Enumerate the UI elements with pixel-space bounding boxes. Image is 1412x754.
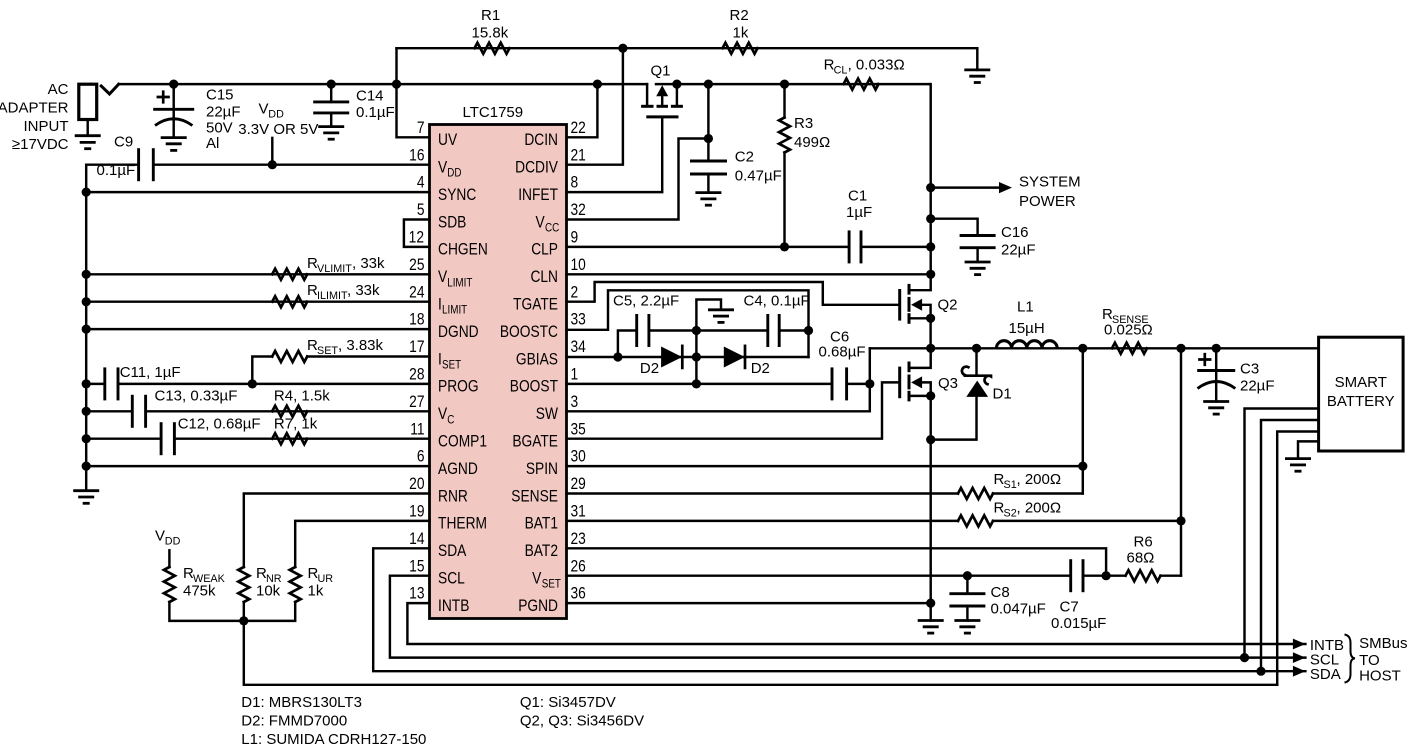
svg-text:2: 2	[570, 283, 578, 302]
ground (top right)	[964, 70, 990, 83]
wire pin28 PROG	[86, 383, 105, 385]
node L1 output	[1078, 344, 1087, 353]
SMBus arrow INTB	[1293, 639, 1306, 650]
svg-text:, 0.033Ω: , 0.033Ω	[848, 56, 905, 73]
svg-text:0.047µF: 0.047µF	[991, 600, 1046, 617]
svg-text:DD: DD	[447, 167, 461, 180]
svg-text:23: 23	[570, 530, 585, 549]
resistor R3	[780, 80, 789, 89]
svg-text:BOOST: BOOST	[510, 377, 559, 396]
svg-text:GBIAS: GBIAS	[516, 350, 558, 369]
svg-text:INPUT: INPUT	[24, 118, 69, 135]
svg-text:1µF: 1µF	[846, 204, 872, 221]
resistor RCL	[844, 79, 879, 90]
svg-text:13: 13	[409, 584, 424, 603]
svg-text:LIMIT: LIMIT	[447, 276, 472, 289]
node thermistor junction	[239, 616, 248, 625]
svg-text:UV: UV	[438, 131, 458, 150]
resistor RS1	[958, 488, 993, 499]
wire pin24 ILIMIT	[86, 300, 429, 302]
svg-text:30: 30	[570, 447, 585, 466]
inductor L1	[996, 341, 1057, 349]
svg-text:PGND: PGND	[518, 597, 558, 616]
svg-text:SYSTEM: SYSTEM	[1019, 174, 1081, 191]
capacitor C2	[704, 80, 713, 89]
wire pin7 UV from top rail	[397, 48, 430, 137]
svg-text:SET: SET	[317, 345, 338, 357]
svg-text:1k: 1k	[733, 24, 749, 41]
resistor R6	[1126, 570, 1161, 581]
svg-text:28: 28	[409, 365, 424, 384]
svg-text:DCDIV: DCDIV	[515, 158, 559, 177]
resistor R1	[475, 43, 510, 54]
svg-text:R3: R3	[794, 115, 813, 132]
svg-text:11: 11	[410, 420, 424, 439]
wire right rail down from RCL	[929, 84, 932, 274]
svg-text:12: 12	[409, 228, 424, 247]
wire pin4 SYNC	[86, 191, 429, 193]
wire thermistor line to battery	[244, 621, 1277, 685]
svg-text:BAT2: BAT2	[525, 542, 558, 561]
AC adapter jack	[79, 84, 97, 119]
svg-text:36: 36	[570, 584, 585, 603]
svg-text:15.8k: 15.8k	[472, 24, 509, 41]
svg-text:DD: DD	[165, 536, 181, 548]
svg-text:5: 5	[417, 201, 425, 220]
op-amp U1 LTC1759 IC body	[430, 125, 567, 619]
svg-text:R6: R6	[1134, 533, 1153, 550]
wire pin8 INFET to Q1 gate	[567, 117, 663, 192]
wire main input rail y=84.1	[119, 83, 648, 85]
svg-text:LTC1759: LTC1759	[463, 104, 524, 121]
svg-text:35: 35	[570, 420, 585, 439]
svg-text:, 33k: , 33k	[352, 255, 385, 272]
wire pin35 BGATE to Q3 gate	[567, 382, 899, 438]
svg-text:C12, 0.68µF: C12, 0.68µF	[178, 416, 261, 433]
svg-text:D1: D1	[993, 386, 1012, 403]
svg-text:BOOSTC: BOOSTC	[500, 323, 558, 342]
svg-text:C8: C8	[991, 584, 1010, 601]
svg-text:C14: C14	[356, 88, 384, 105]
svg-text:C2: C2	[735, 149, 754, 166]
wire BAT1/R6 vertical	[1180, 348, 1182, 575]
svg-text:10k: 10k	[256, 583, 281, 600]
capacitor C15	[169, 80, 178, 89]
svg-text:S1: S1	[1004, 479, 1017, 491]
SMBus arrow SDA	[1293, 666, 1306, 677]
wire pin33 BOOSTC loop	[567, 290, 809, 357]
svg-text:, 3.83k: , 3.83k	[338, 337, 384, 354]
svg-text:0.68µF: 0.68µF	[819, 344, 866, 361]
resistor RWEAK	[168, 550, 170, 567]
svg-text:9: 9	[570, 228, 578, 247]
wire pin22 DCIN	[567, 84, 598, 137]
svg-text:DCIN: DCIN	[524, 131, 558, 150]
ground (left bus)	[73, 491, 99, 504]
svg-text:LIMIT: LIMIT	[442, 304, 467, 317]
svg-text:D2: D2	[640, 360, 659, 377]
resistor RILIMIT	[272, 296, 307, 307]
resistor RSENSE	[1112, 343, 1147, 354]
svg-text:C7: C7	[1060, 599, 1079, 616]
svg-text:7: 7	[417, 119, 425, 138]
svg-text:BATTERY: BATTERY	[1327, 393, 1395, 410]
wire pin9 CLP	[567, 246, 850, 248]
wire pin23 BAT2	[567, 548, 1107, 575]
svg-text:SET: SET	[542, 578, 561, 591]
wire R2 right drop to ground	[976, 48, 978, 70]
wire pin27 VC	[86, 410, 132, 412]
svg-text:AGND: AGND	[438, 460, 478, 479]
svg-text:, 200Ω: , 200Ω	[1017, 471, 1062, 488]
svg-text:D2: D2	[751, 360, 770, 377]
svg-text:475k: 475k	[183, 583, 216, 600]
svg-text:SENSE: SENSE	[511, 487, 558, 506]
svg-text:0.025Ω: 0.025Ω	[1104, 322, 1153, 339]
node R1-R2 junction	[618, 44, 627, 53]
capacitor C8	[963, 571, 972, 580]
svg-text:499Ω: 499Ω	[794, 134, 830, 151]
capacitor C3	[1212, 344, 1221, 353]
smart battery box	[1319, 337, 1404, 451]
svg-text:22µF: 22µF	[1001, 242, 1036, 259]
svg-text:3.3V OR 5V: 3.3V OR 5V	[238, 121, 318, 138]
capacitor C12	[160, 422, 163, 455]
wire pin3 SW up to switch node	[567, 348, 870, 411]
svg-text:29: 29	[570, 475, 585, 494]
svg-text:32: 32	[570, 201, 585, 220]
ground (charge pump)	[708, 310, 734, 323]
svg-text:16: 16	[409, 146, 424, 165]
svg-text:D2: FMMD7000: D2: FMMD7000	[241, 713, 347, 730]
svg-text:CHGEN: CHGEN	[438, 240, 488, 259]
wire VDD stub	[271, 138, 273, 165]
svg-text:C4, 0.1µF: C4, 0.1µF	[744, 293, 810, 310]
wire pin11 COMP1	[86, 437, 161, 439]
svg-text:10: 10	[570, 256, 585, 275]
svg-text:8: 8	[570, 173, 578, 192]
svg-text:1k: 1k	[308, 583, 324, 600]
svg-text:SPIN: SPIN	[526, 460, 558, 479]
wire top R1/R2 rail y=48	[397, 47, 978, 49]
svg-text:1: 1	[570, 365, 578, 384]
svg-text:0.015µF: 0.015µF	[1051, 615, 1106, 632]
svg-text:Q3: Q3	[938, 375, 958, 392]
wire pin31 BAT1 with RS2	[567, 520, 959, 522]
wire pin36 PGND	[567, 602, 931, 604]
svg-text:6: 6	[417, 447, 425, 466]
wire battery ground	[1298, 441, 1319, 458]
wire pin5 SDB / pin12 CHGEN loop	[404, 220, 430, 247]
svg-text:RNR: RNR	[438, 487, 468, 506]
svg-text:, 200Ω: , 200Ω	[1017, 499, 1062, 516]
svg-text:C5, 2.2µF: C5, 2.2µF	[613, 293, 679, 310]
wire pin20 RNR down to RNR resistor	[244, 494, 430, 568]
svg-text:31: 31	[570, 502, 585, 521]
svg-text:SDA: SDA	[1310, 666, 1341, 683]
svg-text:BGATE: BGATE	[512, 432, 558, 451]
svg-text:Q1: Q1	[651, 63, 671, 80]
svg-text:26: 26	[570, 557, 585, 576]
svg-text:50V: 50V	[206, 119, 233, 136]
wire rail right of Q1	[656, 83, 930, 85]
svg-text:V: V	[535, 213, 545, 232]
svg-text:34: 34	[570, 338, 586, 357]
svg-text:V: V	[155, 528, 165, 545]
wire SENSE/SPIN vertical	[1082, 348, 1084, 493]
svg-text:Al: Al	[206, 135, 219, 152]
capacitor C14	[327, 80, 336, 89]
wire pin18 DGND	[86, 328, 429, 330]
svg-text:0.47µF: 0.47µF	[735, 168, 782, 185]
svg-text:AC: AC	[48, 81, 69, 98]
wire SYSTEM POWER arrow	[931, 186, 1000, 188]
svg-text:CL: CL	[834, 64, 848, 76]
diode D2 first	[661, 347, 682, 368]
svg-text:C3: C3	[1240, 361, 1259, 378]
wire pin2 TGATE to Q2 gate	[567, 282, 899, 305]
wire pin30 SPIN	[567, 465, 1083, 467]
resistor RVLIMIT	[272, 269, 307, 280]
wire battery SMBus pin B	[1261, 420, 1319, 671]
svg-text:CLP: CLP	[531, 240, 558, 259]
brace SMBus group	[1345, 635, 1356, 683]
wire pin34 GBIAS diode row	[567, 356, 809, 358]
svg-text:Q2: Q2	[938, 297, 958, 314]
svg-text:14: 14	[409, 530, 425, 549]
wire Q3 source to D1 and PGND	[926, 435, 935, 444]
svg-text:COMP1: COMP1	[438, 432, 487, 451]
diode D1 schottky	[966, 381, 988, 397]
ground (battery)	[1285, 459, 1311, 472]
svg-text:C13, 0.33µF: C13, 0.33µF	[155, 387, 238, 404]
svg-text:R4, 1.5k: R4, 1.5k	[274, 387, 330, 404]
SMBus arrow SCL	[1293, 652, 1306, 663]
svg-text:22µF: 22µF	[1240, 378, 1275, 395]
svg-text:18: 18	[409, 310, 424, 329]
svg-text:19: 19	[409, 502, 424, 521]
svg-text:L1: L1	[1017, 299, 1034, 316]
svg-text:CC: CC	[545, 222, 559, 235]
svg-text:SCL: SCL	[438, 569, 465, 588]
capacitor C5	[635, 314, 638, 347]
svg-text:20: 20	[409, 475, 424, 494]
svg-text:R2: R2	[730, 7, 749, 24]
ground (PGND)	[918, 621, 944, 634]
wire pin10 CLN	[567, 273, 931, 275]
resistor RSET	[272, 351, 307, 362]
capacitor C1	[848, 230, 851, 263]
node system power	[926, 183, 935, 192]
svg-text:DD: DD	[268, 109, 284, 121]
svg-text:R7, 1k: R7, 1k	[274, 416, 318, 433]
wire jack to ground	[86, 120, 88, 136]
svg-text:25: 25	[409, 256, 424, 275]
svg-text:27: 27	[409, 393, 424, 412]
resistor R7	[272, 433, 307, 444]
svg-text:4: 4	[417, 173, 425, 192]
wire battery thermistor pin C	[1277, 432, 1318, 685]
svg-text:21: 21	[570, 146, 585, 165]
wire pin14 SDA routing	[373, 548, 1305, 671]
svg-text:24: 24	[409, 283, 425, 302]
wire charge pump mid node to ground	[696, 300, 721, 384]
node RSENSE right	[1176, 344, 1185, 353]
wire pin15 SCL routing	[390, 576, 1306, 658]
svg-text:ILIMIT: ILIMIT	[317, 290, 348, 302]
svg-text:ADAPTER: ADAPTER	[0, 99, 69, 116]
svg-text:C15: C15	[206, 87, 234, 104]
svg-text:22µF: 22µF	[206, 104, 241, 121]
svg-text:VLIMIT: VLIMIT	[317, 263, 352, 275]
svg-text:L1: SUMIDA CDRH127-150: L1: SUMIDA CDRH127-150	[241, 731, 426, 748]
capacitor C4	[766, 314, 769, 347]
svg-text:Q1: Si3457DV: Q1: Si3457DV	[520, 694, 616, 711]
wire battery SMBus pin A	[1245, 409, 1319, 658]
svg-text:SMBus: SMBus	[1359, 635, 1407, 652]
svg-text:C: C	[447, 413, 454, 426]
wire left bus vertical	[85, 165, 87, 491]
resistor RNR	[238, 567, 249, 602]
svg-text:SET: SET	[442, 359, 461, 372]
svg-text:BAT1: BAT1	[525, 514, 558, 533]
ground (AC input)	[75, 136, 101, 149]
wire pin21 DCDIV	[567, 48, 623, 165]
wire pin26 VSET	[567, 574, 1071, 576]
capacitor C16	[926, 214, 935, 223]
svg-text:C16: C16	[1001, 224, 1029, 241]
svg-text:SMART: SMART	[1335, 374, 1387, 391]
svg-text:POWER: POWER	[1019, 193, 1076, 210]
svg-text:V: V	[259, 101, 269, 118]
capacitor C13	[131, 395, 134, 428]
diode D2 second	[724, 347, 745, 368]
svg-text:PROG: PROG	[438, 377, 479, 396]
wire pin6 AGND	[86, 465, 429, 467]
resistor RUR	[290, 567, 301, 602]
wire pin29 SENSE with RS1	[567, 492, 959, 494]
svg-text:SW: SW	[536, 405, 559, 424]
svg-text:, 33k: , 33k	[347, 282, 380, 299]
wire switch node line	[870, 347, 1319, 349]
wire pin32 VCC	[567, 139, 709, 220]
capacitor C6	[831, 367, 834, 400]
svg-text:15µH: 15µH	[1009, 320, 1045, 337]
svg-text:17: 17	[409, 338, 424, 357]
wire VDD pin16 line	[153, 163, 429, 165]
svg-text:68Ω: 68Ω	[1127, 550, 1155, 567]
svg-text:≥17VDC: ≥17VDC	[12, 136, 69, 153]
wire C5/C4 row	[618, 331, 637, 358]
svg-text:HOST: HOST	[1359, 668, 1401, 685]
svg-text:SDA: SDA	[438, 542, 467, 561]
svg-text:DGND: DGND	[438, 323, 479, 342]
svg-text:C9: C9	[114, 134, 133, 151]
svg-text:C1: C1	[848, 188, 867, 205]
wire pin17 ISET with RSET drop	[252, 357, 272, 384]
resistor R4	[272, 406, 307, 417]
svg-text:INFET: INFET	[518, 186, 558, 205]
svg-text:R1: R1	[481, 7, 500, 24]
svg-text:SDB: SDB	[438, 213, 466, 232]
svg-text:TGATE: TGATE	[513, 295, 558, 314]
svg-text:V: V	[532, 569, 542, 588]
svg-text:C11, 1µF: C11, 1µF	[120, 364, 181, 381]
svg-text:SYNC: SYNC	[438, 186, 476, 205]
resistor R2	[723, 43, 758, 54]
svg-text:CLN: CLN	[530, 268, 558, 287]
svg-text:TO: TO	[1359, 652, 1380, 669]
IC pin names and numbers	[409, 119, 587, 616]
wire pin13 INTB routing	[407, 603, 1305, 644]
svg-text:33: 33	[570, 310, 585, 329]
svg-text:INTB: INTB	[438, 597, 469, 616]
wire pin19 THERM down to RUR resistor	[295, 521, 429, 567]
svg-text:D1: MBRS130LT3: D1: MBRS130LT3	[241, 694, 362, 711]
svg-text:22: 22	[570, 119, 585, 138]
svg-text:S2: S2	[1004, 507, 1017, 519]
svg-text:THERM: THERM	[438, 514, 487, 533]
capacitor C7	[1069, 559, 1072, 592]
svg-text:3: 3	[570, 393, 578, 412]
svg-text:15: 15	[409, 557, 424, 576]
wire pin25 VLIMIT	[86, 273, 429, 275]
svg-text:0.1µF: 0.1µF	[356, 104, 395, 121]
svg-text:Q2, Q3: Si3456DV: Q2, Q3: Si3456DV	[520, 713, 644, 730]
wire pin1 BOOST	[567, 383, 833, 385]
capacitor C11	[103, 367, 106, 400]
resistor RS2	[958, 515, 993, 526]
